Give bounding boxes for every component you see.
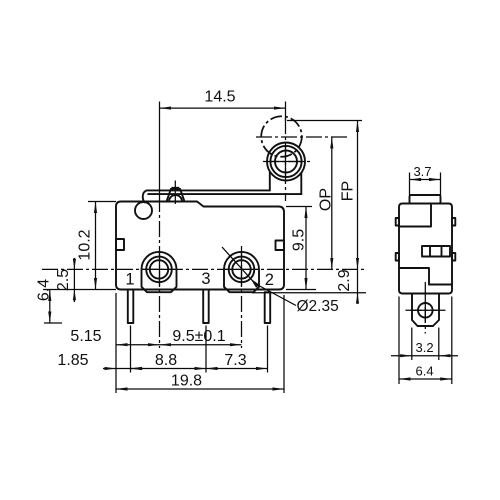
- dimension 5.15: [116, 344, 160, 346]
- side view button: [410, 195, 441, 204]
- pin 3: [203, 290, 209, 324]
- nub center mark: [174, 181, 176, 205]
- roller center cross: [270, 161, 302, 163]
- lever arm top edge with left curl: [143, 190, 270, 202]
- dimension 8.8: [131, 368, 207, 370]
- dimension 6.4: [49, 290, 51, 324]
- svg-text:8.8: 8.8: [155, 352, 177, 369]
- dimension 3.2 extension lines: [411, 328, 413, 361]
- pivot hole: [135, 202, 152, 219]
- roller horizontal center mark: [263, 161, 311, 163]
- dimension 2.9: [357, 269, 359, 303]
- svg-text:9.5: 9.5: [291, 229, 308, 251]
- vertical center line terminal 1: [159, 102, 161, 197]
- terminal 2 rivet ring: [229, 257, 255, 283]
- terminal 1 rivet ring: [146, 257, 172, 283]
- body right extension line (bottom): [283, 295, 285, 393]
- side view cell block: [422, 246, 450, 257]
- dimension 7.3: [206, 368, 268, 370]
- pin 1 extension line: [130, 326, 132, 373]
- body bottom extension line (right): [286, 289, 316, 291]
- side notch left lower: [396, 253, 399, 261]
- roller bracket right: [300, 173, 302, 194]
- side hole solid cross: [413, 309, 438, 311]
- lever arm bottom edge: [148, 193, 301, 195]
- side tab hole horizontal center: [406, 309, 446, 311]
- side notch right upper: [452, 218, 455, 226]
- terminal 1 center cross: [143, 268, 175, 270]
- side tab hole: [418, 303, 433, 318]
- FP top extension line: [287, 120, 362, 122]
- body top-right extension line: [286, 206, 312, 208]
- dimension 9.5 right: [305, 207, 307, 290]
- svg-text:19.8: 19.8: [171, 373, 202, 390]
- phantom roller center line: [256, 136, 347, 138]
- phantom roller (free position): [261, 116, 302, 157]
- dimension 14.5: [160, 107, 286, 109]
- body top extension line (left): [88, 201, 116, 203]
- dimension 19.8: [116, 388, 284, 390]
- side notch left upper: [396, 218, 399, 226]
- svg-text:3.7: 3.7: [413, 164, 431, 179]
- dimension 3.7 extension lines: [409, 173, 411, 196]
- svg-text:1: 1: [125, 271, 134, 289]
- dimension 9.5 +/- 0.1: [160, 344, 242, 346]
- roller rim circle: [270, 146, 301, 177]
- svg-text:2: 2: [265, 271, 274, 289]
- terminal boss 1: [142, 252, 177, 292]
- svg-text:1.85: 1.85: [57, 352, 88, 369]
- side notch right lower: [452, 253, 455, 261]
- left edge notch: [116, 239, 124, 250]
- horizontal center line through terminals: [42, 268, 366, 270]
- pin 2: [265, 292, 271, 323]
- pin 1: [128, 290, 134, 324]
- leader to text: [255, 284, 296, 306]
- dimension 6.4 extension lines (side): [398, 297, 400, 385]
- right edge notch: [276, 241, 285, 251]
- svg-text:OP: OP: [318, 188, 335, 211]
- svg-text:14.5: 14.5: [204, 89, 235, 106]
- pin bottom extension line (left): [44, 322, 62, 324]
- dimension 3.2: [391, 355, 412, 357]
- terminal boss 2: [224, 252, 259, 292]
- roller outer circle: [267, 143, 305, 181]
- side vertical center line: [424, 282, 426, 334]
- dimension 10.2: [95, 202, 97, 290]
- side view body: [399, 204, 452, 294]
- plunger nub dome: [169, 195, 182, 201]
- svg-text:7.3: 7.3: [224, 352, 246, 369]
- leader line through terminal 2: [222, 247, 255, 284]
- dimension 6.4 side: [399, 378, 452, 380]
- boss foot extension line (right): [252, 292, 366, 294]
- svg-text:5.15: 5.15: [70, 328, 101, 345]
- svg-text:10.2: 10.2: [77, 229, 94, 260]
- svg-text:6.4: 6.4: [36, 279, 53, 301]
- roller bracket left: [269, 172, 271, 191]
- svg-text:Ø2.35: Ø2.35: [297, 298, 339, 315]
- terminal 2 rivet inner: [232, 260, 250, 278]
- svg-text:6.4: 6.4: [416, 364, 434, 379]
- body left extension line (bottom): [115, 293, 117, 393]
- dimension 2.5: [73, 258, 75, 302]
- svg-text:9.5±0.1: 9.5±0.1: [172, 328, 225, 345]
- terminal 2 center cross: [226, 268, 258, 270]
- svg-text:3.2: 3.2: [416, 340, 434, 355]
- leader arrowhead: [250, 278, 259, 288]
- dimension FP: [357, 121, 359, 270]
- roller hub circle: [275, 151, 297, 173]
- svg-text:3: 3: [201, 270, 210, 288]
- side terminal tab: [412, 294, 439, 327]
- switch body outline (front view): [116, 202, 284, 290]
- svg-text:2.5: 2.5: [55, 269, 72, 291]
- terminal 1 rivet inner: [150, 260, 168, 278]
- svg-text:FP: FP: [340, 181, 357, 201]
- pin 3 extension line: [205, 326, 207, 373]
- plunger nub trapezoid: [167, 189, 185, 202]
- dimension 1.85: [103, 368, 116, 370]
- side view inner contour lower: [399, 268, 452, 285]
- dimension 3.7: [410, 179, 441, 181]
- body bottom extension line (left): [43, 289, 116, 291]
- side view inner contour upper: [399, 204, 431, 227]
- svg-text:2.9: 2.9: [336, 269, 353, 291]
- pin 2 extension line: [267, 326, 269, 373]
- vertical center line terminal 2: [241, 246, 243, 348]
- vertical center line through roller: [285, 102, 287, 122]
- dimension OP: [331, 137, 333, 269]
